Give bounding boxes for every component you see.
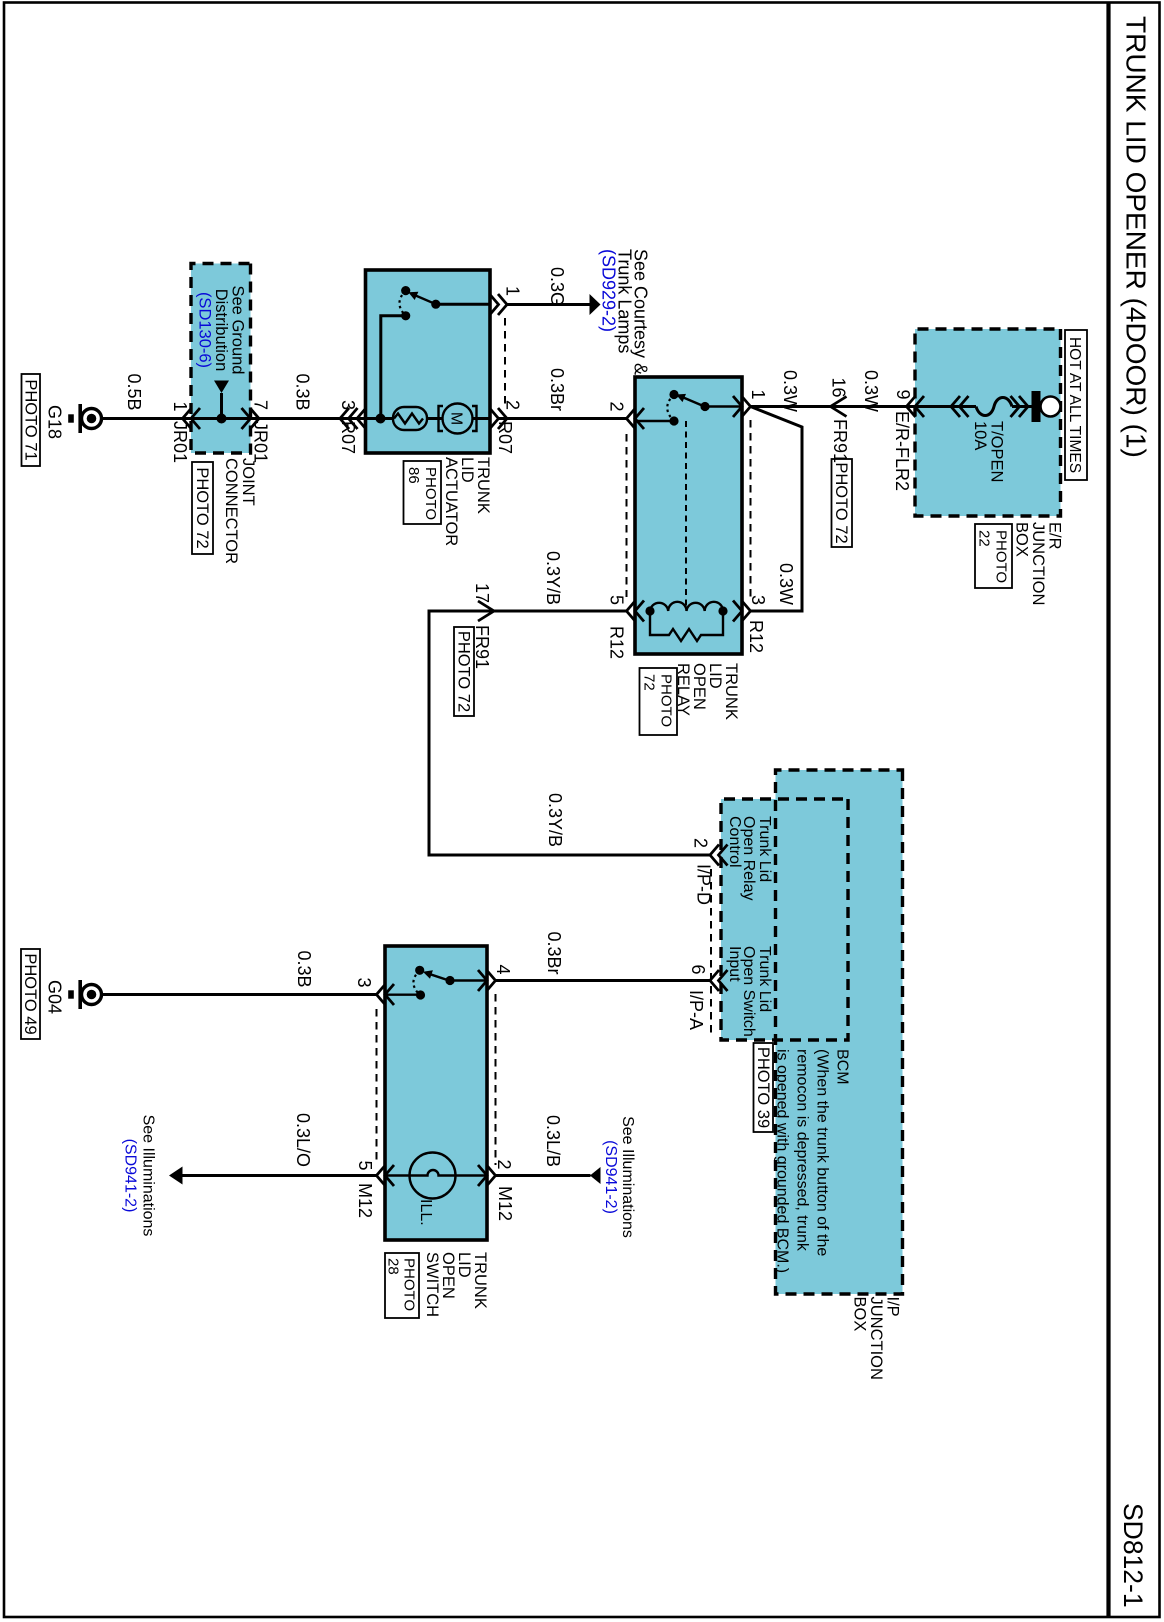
- svg-text:28: 28: [385, 1258, 402, 1275]
- svg-text:6: 6: [688, 964, 708, 974]
- svg-text:1: 1: [503, 286, 523, 296]
- svg-text:0.3W: 0.3W: [780, 370, 800, 412]
- svg-text:PHOTO: PHOTO: [993, 530, 1010, 583]
- svg-text:M12: M12: [355, 1183, 375, 1218]
- svg-text:CONNECTOR: CONNECTOR: [222, 458, 240, 564]
- svg-text:See Ground: See Ground: [229, 286, 247, 375]
- svg-text:SWITCH: SWITCH: [423, 1252, 441, 1317]
- svg-text:FR91: FR91: [830, 419, 850, 463]
- svg-text:JOINT: JOINT: [239, 458, 257, 506]
- svg-text:3: 3: [354, 977, 374, 987]
- svg-text:0.3L/O: 0.3L/O: [293, 1113, 313, 1167]
- svg-text:OPEN: OPEN: [439, 1252, 457, 1299]
- svg-text:0.3B: 0.3B: [293, 373, 313, 410]
- svg-text:PHOTO: PHOTO: [658, 674, 675, 727]
- svg-text:PHOTO 72: PHOTO 72: [455, 631, 473, 712]
- svg-text:0.3Br: 0.3Br: [544, 931, 564, 974]
- svg-text:OPEN: OPEN: [690, 663, 708, 710]
- svg-text:LID: LID: [458, 457, 476, 483]
- svg-text:0.3W: 0.3W: [861, 370, 881, 412]
- svg-text:0.3Y/B: 0.3Y/B: [543, 551, 563, 605]
- svg-text:22: 22: [976, 530, 993, 547]
- svg-text:1: 1: [170, 401, 190, 411]
- svg-text:PHOTO 71: PHOTO 71: [22, 379, 40, 460]
- svg-text:Control: Control: [726, 816, 743, 868]
- svg-text:JR01: JR01: [170, 421, 190, 463]
- svg-text:M: M: [448, 412, 465, 425]
- svg-text:I/P-D: I/P-D: [694, 864, 714, 905]
- svg-text:PHOTO: PHOTO: [422, 467, 439, 520]
- svg-text:ACTUATOR: ACTUATOR: [442, 457, 460, 546]
- svg-text:Trunk Lid: Trunk Lid: [756, 816, 773, 882]
- svg-text:T/OPEN: T/OPEN: [988, 421, 1006, 482]
- svg-text:0.3B: 0.3B: [294, 950, 314, 987]
- svg-text:G18: G18: [45, 405, 65, 439]
- svg-text:PHOTO 72: PHOTO 72: [193, 467, 211, 548]
- svg-text:FR91: FR91: [472, 625, 492, 669]
- svg-text:LID: LID: [455, 1252, 473, 1278]
- svg-text:ILL.: ILL.: [417, 1199, 434, 1226]
- svg-text:PHOTO 72: PHOTO 72: [832, 462, 850, 543]
- svg-text:17: 17: [472, 583, 492, 603]
- svg-text:PHOTO: PHOTO: [401, 1258, 418, 1311]
- svg-text:86: 86: [405, 467, 422, 484]
- svg-text:R07: R07: [495, 421, 515, 454]
- svg-text:remocon is depressed, trunk: remocon is depressed, trunk: [794, 1049, 811, 1252]
- svg-text:0.3Y/B: 0.3Y/B: [545, 793, 565, 847]
- svg-text:(SD929-2): (SD929-2): [599, 249, 619, 332]
- svg-text:Input: Input: [726, 946, 743, 982]
- svg-text:LID: LID: [706, 663, 724, 689]
- svg-text:2: 2: [494, 1159, 514, 1169]
- svg-text:TRUNK: TRUNK: [474, 457, 492, 514]
- svg-text:1: 1: [748, 389, 768, 399]
- svg-text:2: 2: [691, 838, 711, 848]
- svg-text:is opened with grounded BCM.): is opened with grounded BCM.): [774, 1049, 791, 1273]
- svg-text:0.3W: 0.3W: [776, 563, 796, 605]
- svg-text:3: 3: [338, 400, 358, 410]
- svg-text:5: 5: [607, 595, 627, 605]
- svg-text:16: 16: [829, 377, 849, 397]
- svg-text:9: 9: [893, 389, 913, 399]
- svg-text:PHOTO 49: PHOTO 49: [21, 953, 39, 1034]
- svg-text:BOX: BOX: [1013, 522, 1031, 557]
- svg-text:BCM: BCM: [834, 1049, 851, 1085]
- svg-text:See Illuminations: See Illuminations: [619, 1116, 636, 1238]
- svg-text:RELAY: RELAY: [674, 663, 692, 716]
- svg-text:TRUNK: TRUNK: [722, 663, 740, 720]
- svg-text:2: 2: [503, 400, 523, 410]
- svg-text:72: 72: [641, 674, 658, 691]
- svg-text:PHOTO 39: PHOTO 39: [754, 1047, 772, 1128]
- svg-text:(SD941-2): (SD941-2): [122, 1139, 139, 1213]
- svg-text:2: 2: [607, 401, 627, 411]
- svg-text:BOX: BOX: [851, 1297, 869, 1332]
- svg-text:I/P: I/P: [884, 1297, 902, 1317]
- svg-text:E/R: E/R: [1046, 522, 1064, 550]
- svg-text:10A: 10A: [971, 421, 989, 450]
- svg-text:E/R-FLR2: E/R-FLR2: [892, 411, 912, 491]
- svg-text:(SD941-2): (SD941-2): [602, 1140, 619, 1214]
- svg-text:0.3L/B: 0.3L/B: [543, 1115, 563, 1167]
- svg-text:7: 7: [251, 400, 271, 410]
- svg-text:(When the trunk button of the: (When the trunk button of the: [814, 1049, 831, 1256]
- svg-text:M12: M12: [495, 1186, 515, 1221]
- svg-text:0.5B: 0.5B: [124, 373, 144, 410]
- svg-text:R12: R12: [746, 620, 766, 653]
- svg-text:4: 4: [493, 964, 513, 974]
- svg-text:TRUNK: TRUNK: [471, 1252, 489, 1309]
- svg-text:TRUNK LID OPENER (4DOOR) (1): TRUNK LID OPENER (4DOOR) (1): [1121, 16, 1152, 458]
- svg-text:0.3Br: 0.3Br: [547, 368, 567, 411]
- svg-text:See Illuminations: See Illuminations: [140, 1115, 157, 1237]
- svg-text:SD812-1: SD812-1: [1118, 1503, 1148, 1608]
- svg-text:HOT AT ALL TIMES: HOT AT ALL TIMES: [1066, 337, 1083, 473]
- svg-text:(SD130-6): (SD130-6): [196, 292, 214, 368]
- svg-text:I/P-A: I/P-A: [686, 990, 706, 1030]
- svg-text:JUNCTION: JUNCTION: [867, 1297, 885, 1380]
- svg-text:Distribution: Distribution: [212, 289, 230, 372]
- svg-text:5: 5: [355, 1160, 375, 1170]
- svg-text:JR01: JR01: [251, 421, 271, 463]
- svg-text:0.3G: 0.3G: [547, 267, 567, 306]
- svg-text:R12: R12: [607, 626, 627, 659]
- svg-text:Trunk Lid: Trunk Lid: [756, 946, 773, 1012]
- svg-text:G04: G04: [45, 980, 65, 1014]
- svg-text:3: 3: [748, 595, 768, 605]
- svg-text:R07: R07: [338, 421, 358, 454]
- svg-text:JUNCTION: JUNCTION: [1029, 522, 1047, 605]
